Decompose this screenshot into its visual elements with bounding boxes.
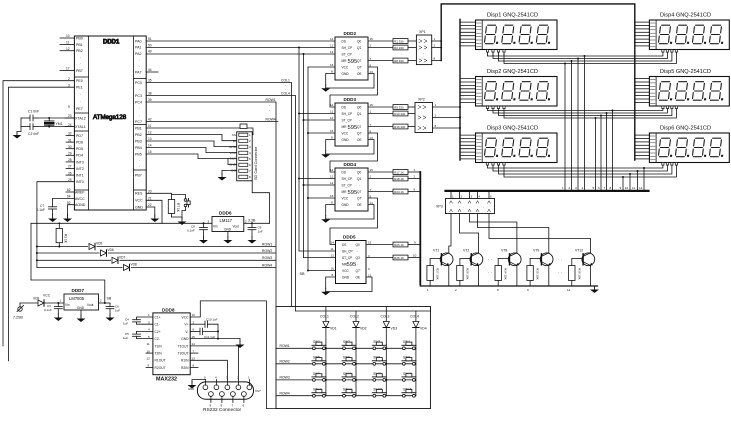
MCU GND pin ground <box>146 207 155 215</box>
svg-text:12: 12 <box>639 186 643 190</box>
svg-text:14: 14 <box>148 144 152 148</box>
svg-text:· ·: · · <box>558 270 562 275</box>
svg-text:PE1: PE1 <box>76 86 83 90</box>
svg-text:COL2: COL2 <box>350 314 359 318</box>
svg-text:· ·: · · <box>558 257 562 262</box>
svg-text:DO: DO <box>231 169 236 173</box>
DDD3 output wires to resistors <box>368 106 393 108</box>
resistor R1 330 <box>393 39 416 44</box>
svg-text:·: · <box>80 92 81 96</box>
svg-text:DS: DS <box>342 243 346 247</box>
svg-text:11: 11 <box>331 247 334 251</box>
column 3 diode VD3 <box>381 307 398 396</box>
svg-text:PB3: PB3 <box>135 139 142 143</box>
resistor R16 330 <box>393 124 415 129</box>
IC DDD8 MAX232 <box>147 308 196 383</box>
svg-text:9: 9 <box>68 105 70 109</box>
crystal YM1 + caps C1 C2 <box>17 110 74 136</box>
svg-text:·: · <box>139 65 140 69</box>
svg-text:SH_CP: SH_CP <box>342 46 353 50</box>
svg-text:INT2: INT2 <box>76 167 84 171</box>
svg-text:MAX232: MAX232 <box>156 377 177 383</box>
svg-text:XP1: XP1 <box>419 30 426 34</box>
cap C11 V- <box>190 328 219 339</box>
transistor VT3 <box>495 249 521 287</box>
keypad buttons row4 <box>312 388 416 398</box>
svg-text:13: 13 <box>148 137 152 141</box>
svg-text:VD5: VD5 <box>96 242 102 246</box>
svg-text:VCC: VCC <box>342 131 349 135</box>
DDD3 ground <box>326 140 374 155</box>
svg-text:PA2: PA2 <box>135 52 142 56</box>
svg-text:V-: V- <box>185 330 188 334</box>
svg-text:MR: MR <box>342 262 348 266</box>
svg-text:C2+: C2+ <box>155 330 161 334</box>
svg-text:PC3: PC3 <box>135 94 142 98</box>
svg-text:27: 27 <box>68 165 72 169</box>
keypad buttons row3 <box>312 372 416 382</box>
svg-text:Q7': Q7' <box>356 269 361 273</box>
svg-text:ST_CP: ST_CP <box>342 118 352 122</box>
svg-text:C1-: C1- <box>155 323 160 327</box>
svg-text:VCC: VCC <box>135 199 143 203</box>
svg-text:25: 25 <box>68 178 72 182</box>
svg-text:Disp6 GNQ-2541CD: Disp6 GNQ-2541CD <box>660 126 711 132</box>
svg-text:12: 12 <box>330 181 334 185</box>
svg-text:PE0: PE0 <box>76 79 83 83</box>
svg-text:·: · <box>139 165 140 169</box>
svg-text:ROW4: ROW4 <box>262 263 272 267</box>
diode VD6 <box>100 248 114 257</box>
svg-text:COL4: COL4 <box>410 314 419 318</box>
resistor R17 1K <box>393 168 420 174</box>
svg-text:ROW3: ROW3 <box>280 376 290 380</box>
svg-text:DDD2: DDD2 <box>344 31 357 36</box>
Disp5 digit common pins <box>662 106 678 109</box>
emitter rail <box>420 285 597 287</box>
svg-text:10: 10 <box>413 254 417 258</box>
svg-text:·: · <box>359 118 360 122</box>
svg-text:T1IN: T1IN <box>155 344 163 348</box>
svg-text:DDD3: DDD3 <box>344 97 357 102</box>
svg-text:PB7: PB7 <box>135 174 142 178</box>
DDD1 right pin names <box>135 39 143 209</box>
svg-text:PB2: PB2 <box>135 133 142 137</box>
R2IN stub <box>190 367 198 369</box>
tick group 9-12 verticals <box>620 167 646 191</box>
svg-text:PD4: PD4 <box>76 154 83 158</box>
svg-text:AGND: AGND <box>75 203 86 207</box>
svg-text:Q0: Q0 <box>357 170 361 174</box>
svg-text:PB2: PB2 <box>76 49 83 53</box>
svg-text:MR: MR <box>342 190 348 194</box>
pullup resistor R1 1K <box>56 222 67 247</box>
wire PE1 to left edge <box>9 87 75 361</box>
svg-text:SCK: SCK <box>230 157 237 161</box>
svg-text:·: · <box>423 52 424 56</box>
T1OUT wire to DB9 pin2 <box>190 346 238 380</box>
svg-text:LM117: LM117 <box>220 218 233 223</box>
svg-text:·: · <box>269 104 270 108</box>
svg-text:RT 1K: RT 1K <box>176 203 180 213</box>
svg-text:VT1: VT1 <box>433 249 439 253</box>
DDD5 ground <box>326 277 372 292</box>
svg-text:·: · <box>80 100 81 104</box>
svg-text:22: 22 <box>148 203 152 207</box>
keypad buttons row1 <box>312 340 416 349</box>
XP3 wires to transistor collectors <box>449 214 591 253</box>
RESET wire to button <box>146 193 171 197</box>
svg-text:ROW1: ROW1 <box>262 242 272 246</box>
svg-text:DS: DS <box>342 105 346 109</box>
vertical SH_CP bus tap <box>298 47 335 252</box>
svg-text:11: 11 <box>66 41 70 45</box>
Disp4 digit common pins <box>662 50 678 53</box>
svg-text:· ·: · · <box>488 270 492 275</box>
svg-text:PB7: PB7 <box>76 69 83 73</box>
svg-text:R25 1K: R25 1K <box>394 243 404 247</box>
second COL feed wire inside keypad <box>296 310 431 312</box>
svg-text:R1 1K: R1 1K <box>64 234 68 244</box>
svg-text:·: · <box>139 59 140 63</box>
svg-text:1uF: 1uF <box>258 230 263 234</box>
svg-text:26: 26 <box>68 171 72 175</box>
svg-text:SB: SB <box>300 272 306 276</box>
wire INT0 to diode OR <box>37 182 75 268</box>
wire PA1 to DDD2 SH_CP <box>146 47 335 49</box>
svg-text:595: 595 <box>348 59 358 65</box>
wire PA2 to DDD2 ST_CP <box>146 53 335 55</box>
transistor VT2 <box>457 249 483 287</box>
svg-text:32: 32 <box>68 132 72 136</box>
IC U DDD1 ATMega128 body <box>74 36 146 210</box>
svg-text:C2 0nF: C2 0nF <box>28 132 39 136</box>
svg-text:PA0: PA0 <box>135 39 142 43</box>
svg-text:DI: DI <box>233 139 236 143</box>
svg-text:14: 14 <box>330 37 334 41</box>
svg-text:V+: V+ <box>184 323 188 327</box>
display Disp6 GNQ-2541CD <box>649 126 729 163</box>
svg-text:11: 11 <box>330 44 333 48</box>
svg-text:GND: GND <box>229 163 237 167</box>
vertical ST_CP bus tap <box>303 53 336 258</box>
Disp3 digit common pins <box>486 163 505 166</box>
svg-text:10: 10 <box>147 349 151 353</box>
wire PA0 to DDD2 DS <box>146 40 335 42</box>
svg-text:12: 12 <box>66 47 70 51</box>
svg-text:R9 330: R9 330 <box>394 105 404 109</box>
DDD5 output wires to resistors <box>366 244 393 246</box>
svg-text:·: · <box>357 262 358 266</box>
svg-text:RS232 Connector: RS232 Connector <box>203 407 242 413</box>
column junction dots <box>325 347 387 381</box>
svg-text:ROW1: ROW1 <box>280 344 290 348</box>
svg-text:·: · <box>80 62 81 66</box>
svg-text:PC0: PC0 <box>135 81 142 85</box>
svg-text:Q7: Q7 <box>357 190 361 194</box>
Disp2 segment stub ladder <box>460 79 476 103</box>
Disp1 segment stub ladder <box>460 22 476 46</box>
resistor R26 1K <box>393 254 420 260</box>
svg-text:0.1uF: 0.1uF <box>187 229 195 233</box>
display Disp2 GNQ-2541CD <box>476 69 558 106</box>
svg-text:Q7: Q7 <box>357 59 361 63</box>
svg-text:15: 15 <box>192 335 196 339</box>
svg-text:Disp2 GNQ-2541CD: Disp2 GNQ-2541CD <box>487 69 538 75</box>
diode VD8 <box>123 263 137 272</box>
svg-text:3.3B: 3.3B <box>248 218 256 222</box>
svg-text:INT3: INT3 <box>76 160 84 164</box>
column 1 diode VD1 <box>320 307 337 396</box>
resistor R10 330 <box>393 111 415 116</box>
resistor R8 330 <box>393 58 416 63</box>
svg-text:PC4: PC4 <box>135 100 142 104</box>
svg-text:R38 10K: R38 10K <box>577 268 581 280</box>
reset button <box>182 199 190 218</box>
svg-text:·: · <box>139 87 140 91</box>
IC DDD2 74HC595 <box>330 31 373 80</box>
rail down to battery wire <box>30 223 32 280</box>
regulator DDD6 LM117 <box>208 211 270 237</box>
diode VD5 <box>88 242 102 251</box>
svg-text:R8 330: R8 330 <box>394 59 404 63</box>
svg-text:SH_CP: SH_CP <box>342 112 353 116</box>
DDD1 left pin names <box>75 36 86 207</box>
svg-text:·: · <box>463 206 464 210</box>
SB net loop LM7805 out <box>31 280 112 304</box>
common bundle 2 wires Disp2-Disp5 <box>488 109 677 118</box>
svg-text:0.1uF: 0.1uF <box>37 208 45 212</box>
svg-text:INT1: INT1 <box>76 174 84 178</box>
cap C6 at 7805 output <box>106 303 120 314</box>
svg-text:12: 12 <box>330 116 334 120</box>
svg-text:AVCC: AVCC <box>75 197 85 201</box>
DDD1 right pin numbers <box>148 37 152 207</box>
svg-text:Vin: Vin <box>213 225 218 229</box>
svg-text:15: 15 <box>148 150 152 154</box>
svg-text:Disp4 GNQ-2541CD: Disp4 GNQ-2541CD <box>660 13 711 19</box>
svg-text:R2 330: R2 330 <box>394 46 404 50</box>
svg-text:Vout: Vout <box>233 225 239 229</box>
R1IN wire to DB9 pin3 <box>190 360 227 379</box>
svg-text:595: 595 <box>348 125 358 131</box>
svg-text:R1OUT: R1OUT <box>155 359 166 363</box>
svg-text:14: 14 <box>331 241 335 245</box>
svg-text:R35 10K: R35 10K <box>536 268 540 280</box>
svg-text:LM7805: LM7805 <box>69 296 85 301</box>
svg-text:VD7: VD7 <box>119 255 125 259</box>
svg-text:ST_CP: ST_CP <box>342 256 352 260</box>
svg-text:GND: GND <box>342 72 350 76</box>
svg-text:OE: OE <box>356 275 361 279</box>
COL1 wire <box>146 83 291 307</box>
DB9 RS232 connector XS2 <box>197 376 261 413</box>
svg-text:·: · <box>359 183 360 187</box>
power rail to LM117 <box>31 222 212 224</box>
tick group 5-8 verticals <box>593 110 614 191</box>
cap C8 at LM117 input <box>187 222 208 236</box>
segment feed vertical right of XP1 <box>440 4 635 160</box>
MAX232 VCC loop around keypad <box>190 301 276 409</box>
svg-text:SD Card Connector: SD Card Connector <box>254 146 258 180</box>
svg-text:SH_CP: SH_CP <box>342 249 353 253</box>
ROW1 wire <box>146 102 276 307</box>
IC DDD4 74HC595 <box>330 162 373 211</box>
svg-text:50: 50 <box>148 43 152 47</box>
ROW4 wire <box>146 121 278 123</box>
svg-text:SB: SB <box>107 297 112 301</box>
svg-text:ROW4: ROW4 <box>266 117 276 121</box>
svg-text:·: · <box>139 107 140 111</box>
svg-text:OE: OE <box>357 72 362 76</box>
DDD3 Q7' cascade to DDD4 <box>330 133 378 172</box>
transistor VT5 <box>569 249 595 287</box>
svg-text:R10 330: R10 330 <box>394 112 405 116</box>
cap C3 at 7805 input <box>44 303 62 314</box>
svg-text:PB0: PB0 <box>76 36 83 40</box>
cap C4 <box>123 317 153 326</box>
column 4 diode VD4 <box>410 311 427 396</box>
svg-text:Disp3 GNQ-2541CD: Disp3 GNQ-2541CD <box>487 126 538 132</box>
svg-text:VCC: VCC <box>342 65 349 69</box>
svg-text:15: 15 <box>370 168 374 172</box>
diode VD7 <box>111 255 125 264</box>
svg-text:16: 16 <box>330 194 334 198</box>
svg-text:DS: DS <box>342 39 346 43</box>
svg-text:Q7': Q7' <box>357 196 362 200</box>
svg-text:DDD8: DDD8 <box>162 308 175 313</box>
resistor R25 1K <box>393 241 420 247</box>
svg-text:·: · <box>139 114 140 118</box>
svg-text:R34 10K: R34 10K <box>504 268 508 280</box>
svg-text:7.2SB: 7.2SB <box>13 316 23 320</box>
svg-text:30: 30 <box>68 145 72 149</box>
regulator DDD7 LM7805 <box>60 288 103 315</box>
svg-text:GND: GND <box>181 337 189 341</box>
svg-text:595: 595 <box>347 262 357 268</box>
keypad row return wires with OR diodes <box>36 242 276 267</box>
svg-text:ATMega128: ATMega128 <box>93 114 127 121</box>
cap C9 at LM117 output <box>248 222 263 236</box>
svg-text:ROW4: ROW4 <box>280 391 290 395</box>
svg-text:·: · <box>269 109 270 113</box>
svg-text:PB4: PB4 <box>135 146 142 150</box>
rail ground <box>590 286 599 293</box>
common bundle 3 wires Disp3-Disp6 <box>488 165 677 177</box>
svg-text:14: 14 <box>330 168 334 172</box>
svg-text:PD6: PD6 <box>76 141 83 145</box>
svg-text:0.1uF: 0.1uF <box>44 308 52 312</box>
svg-text:VCC: VCC <box>229 151 236 155</box>
svg-text:R2IN: R2IN <box>181 366 189 370</box>
DDD1 left pin stubs + numbers <box>60 38 74 192</box>
svg-text:VD2: VD2 <box>360 327 367 331</box>
svg-text:12: 12 <box>567 288 571 292</box>
svg-text:17: 17 <box>66 67 70 71</box>
svg-text:R28 10K: R28 10K <box>465 268 469 280</box>
svg-text:CS: CS <box>232 133 236 137</box>
svg-text:31: 31 <box>68 138 72 142</box>
svg-text:XS?: XS? <box>255 389 261 393</box>
tick group 1-4 verticals <box>562 55 586 191</box>
svg-text:ST_CP: ST_CP <box>342 52 352 56</box>
svg-text:XTAL2: XTAL2 <box>75 116 86 120</box>
svg-text:1uF: 1uF <box>123 336 128 340</box>
svg-text:VCC: VCC <box>182 315 190 319</box>
svg-text:16: 16 <box>330 129 334 133</box>
svg-text:PE7: PE7 <box>76 107 83 111</box>
svg-text:PB5: PB5 <box>135 152 142 156</box>
svg-text:PB1: PB1 <box>76 43 83 47</box>
svg-text:OE: OE <box>357 138 362 142</box>
svg-text:VT9: VT9 <box>533 249 539 253</box>
svg-text:Q1: Q1 <box>357 177 361 181</box>
svg-text:GND: GND <box>77 306 85 310</box>
T2OUT stub <box>190 352 198 354</box>
svg-text:C11 1uF: C11 1uF <box>204 335 215 339</box>
resistor R24 1K <box>393 188 420 194</box>
svg-text:INT0: INT0 <box>76 180 84 184</box>
SD card connector XS1 <box>229 124 258 181</box>
diode VD9 <box>33 294 64 307</box>
column 2 diode VD2 <box>350 311 367 396</box>
svg-text:VCC: VCC <box>43 294 51 298</box>
svg-text:R2OUT: R2OUT <box>155 366 166 370</box>
svg-text:DS: DS <box>342 170 346 174</box>
svg-text:C1+: C1+ <box>155 315 161 319</box>
svg-text:ROW2: ROW2 <box>262 249 272 253</box>
svg-text:VT12: VT12 <box>575 249 583 253</box>
svg-text:AREF: AREF <box>75 190 85 194</box>
svg-text:VT8: VT8 <box>501 249 507 253</box>
VCC pin wire down to rail <box>146 200 162 223</box>
left display segment bus vertical <box>459 19 461 160</box>
svg-text:C2-: C2- <box>155 337 160 341</box>
Disp5 segment stub ladder <box>635 79 650 103</box>
AGND ground <box>68 205 75 215</box>
rail pin numbers <box>427 288 571 292</box>
svg-text:29: 29 <box>68 152 72 156</box>
transistor VT1 <box>427 249 453 287</box>
svg-text:12: 12 <box>331 254 335 258</box>
svg-text:VT2: VT2 <box>463 249 469 253</box>
svg-text:16: 16 <box>330 63 334 67</box>
connector XP2 <box>415 98 461 133</box>
svg-text:Q3: Q3 <box>356 256 360 260</box>
net labels COL ROW <box>266 78 290 121</box>
svg-text:T1OUT: T1OUT <box>178 344 189 348</box>
Disp6 segment stub ladder <box>635 135 650 159</box>
svg-text:·: · <box>139 159 140 163</box>
svg-text:DDD5: DDD5 <box>343 235 356 240</box>
keypad enclosure wire <box>276 307 431 409</box>
svg-text:Q1: Q1 <box>357 112 361 116</box>
svg-text:PD7: PD7 <box>76 134 83 138</box>
battery 7.2SB input <box>13 303 38 320</box>
display Disp4 GNQ-2541CD <box>649 13 729 50</box>
svg-text:595: 595 <box>348 190 358 196</box>
svg-text:R16 330: R16 330 <box>394 125 405 129</box>
svg-text:VCC: VCC <box>342 269 349 273</box>
svg-text:28: 28 <box>68 158 72 162</box>
svg-text:XP2: XP2 <box>418 98 425 102</box>
svg-text:· ·: · · <box>488 257 492 262</box>
svg-text:XP3: XP3 <box>436 205 443 209</box>
svg-text:Q0: Q0 <box>356 243 360 247</box>
display Disp5 GNQ-2541CD <box>649 69 729 106</box>
ground under crystal caps <box>13 132 22 139</box>
svg-text:T2IN: T2IN <box>155 352 163 356</box>
